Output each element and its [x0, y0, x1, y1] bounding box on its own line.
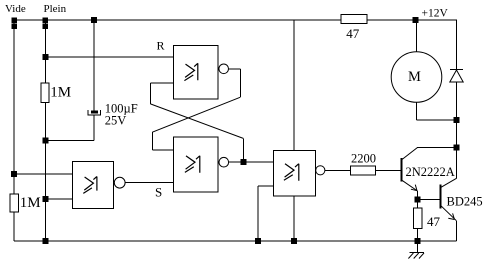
svg-text:1M: 1M	[20, 195, 41, 211]
wire Plein vertical lower	[44, 102, 46, 241]
wire Q1 emitter node to Q2 base	[418, 199, 441, 201]
svg-text:M: M	[408, 69, 421, 85]
wire R5 to Q1 base	[376, 169, 401, 171]
gate U1D symbol >=1	[284, 164, 299, 181]
diode D1	[450, 69, 463, 82]
wire capacitor return	[45, 115, 94, 140]
wire right drop to diode	[456, 20, 458, 70]
node Plein lower tap junction	[43, 197, 48, 202]
resistor R1 1M (Plein) box	[41, 83, 49, 102]
wire top rail left segment	[14, 19, 341, 21]
wire gate3 power pin top	[293, 20, 295, 150]
svg-text:25V: 25V	[105, 114, 127, 128]
wire below R4 to bottom rail	[13, 212, 15, 241]
svg-text:Vide: Vide	[5, 3, 26, 15]
svg-text:47: 47	[427, 214, 441, 229]
motor M1 circle	[391, 52, 442, 103]
svg-text:Plein: Plein	[44, 3, 67, 15]
resistor R2 1M (Vide) box	[10, 194, 18, 212]
wire Q1 emitter stem to R6	[417, 191, 419, 208]
wire node R to gate1 input	[45, 56, 173, 58]
svg-text:+12V: +12V	[422, 8, 449, 20]
wire Q1 collector horizontal	[417, 147, 456, 149]
node motor return junction	[454, 117, 459, 122]
svg-text:47: 47	[346, 26, 360, 41]
wire gate2 output to gate3 input1	[229, 161, 274, 163]
wire gate3 power pin bottom	[293, 196, 295, 241]
wire gate3 input2 tie to ground rail	[258, 186, 274, 241]
wire node to collector node	[456, 120, 458, 148]
wire gate3 output to R5	[325, 169, 350, 171]
gate U1A output bubble	[114, 177, 125, 188]
wire R6 bottom stem	[417, 229, 419, 242]
resistor R3 47 (top rail) box	[341, 15, 367, 24]
resistor R5 2200 box	[350, 166, 375, 175]
capacitor C1 100uF plates	[88, 110, 101, 115]
node tie-down bottom junction	[256, 239, 261, 244]
wire cross-couple gate2out to gate1in2	[150, 83, 173, 104]
wire Plein tap to gate0 input2	[45, 198, 72, 200]
wire Vide vertical	[13, 20, 15, 194]
wire top rail right segment	[367, 19, 457, 21]
gate U1B output bubble	[219, 64, 229, 74]
node gate2 output junction	[241, 160, 246, 165]
gate U1A symbol >=1	[83, 177, 97, 194]
svg-text:BD245: BD245	[447, 194, 483, 208]
svg-text:R: R	[157, 38, 165, 52]
wire Q2 emitter drop	[456, 221, 458, 241]
resistor R6 47 (emitter) box	[413, 208, 422, 229]
gate U1C box (lower latch gate)	[174, 137, 219, 192]
transistor Q1 2N2222A	[402, 148, 418, 191]
node collector junction	[454, 145, 459, 150]
gate U1D box (output driver gate)	[274, 150, 316, 196]
wire diode anode to motor return node	[456, 82, 458, 120]
wire cross-couple gate1out to gate2in1	[152, 97, 240, 132]
node Plein bottom junction	[43, 239, 48, 244]
wire capacitor top stem	[93, 20, 95, 111]
wire motor top	[416, 20, 418, 52]
wire bottom rail	[14, 240, 457, 242]
wire ground stem	[417, 241, 419, 253]
node Q1 emitter junction	[415, 197, 420, 202]
transistor Q2 BD245	[441, 178, 457, 221]
wire node Vide tap to gate0 input1	[14, 173, 72, 175]
node capacitor top junction	[92, 18, 97, 23]
gate U1B box (upper latch gate R)	[174, 46, 219, 100]
svg-text:2200: 2200	[351, 152, 376, 166]
gate U1A box (S gate, lower-left)	[72, 162, 113, 209]
node gate power bottom junction	[291, 239, 296, 244]
gate U1B symbol >=1	[184, 63, 197, 80]
svg-text:S: S	[155, 185, 162, 200]
wire collector node down to BD245 collector	[456, 148, 458, 179]
node R tap junction	[43, 55, 48, 60]
gate U1C output bubble	[219, 157, 229, 167]
ground symbol	[408, 253, 424, 259]
wire gate1 output	[228, 69, 240, 97]
svg-text:1M: 1M	[50, 84, 71, 100]
gate U1C symbol >=1	[185, 156, 200, 173]
node Vide terminal dots	[12, 18, 17, 29]
wire gate0 output S	[125, 182, 173, 184]
svg-text:2N2222A: 2N2222A	[406, 165, 455, 179]
wire motor bottom	[417, 102, 457, 120]
wire Plein vertical upper	[44, 20, 46, 83]
node Plein terminal dots	[43, 18, 48, 29]
gate U1D output bubble	[316, 166, 325, 175]
node ground rail junction	[415, 239, 420, 244]
node capacitor return junction	[43, 138, 48, 143]
node +12V junction	[413, 18, 418, 23]
node Vide tap junction	[12, 172, 17, 177]
